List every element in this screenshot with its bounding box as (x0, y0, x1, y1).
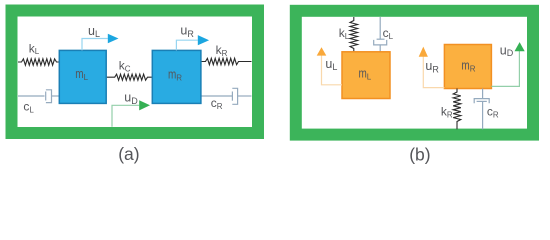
spring kC (106, 74, 152, 80)
mass mR (a) (152, 50, 201, 103)
damper cL (18, 90, 59, 103)
arrow uD (b) head (515, 42, 525, 51)
arrow uR (a) wire (176, 40, 197, 50)
spring kL (b) (350, 17, 358, 52)
arrow uL (a) wire (82, 39, 108, 51)
arrow uD (a) head (139, 100, 150, 110)
svg-text:uD: uD (124, 90, 138, 106)
svg-text:uD: uD (500, 43, 514, 58)
mass mL (a) (59, 50, 106, 103)
panel (a) frame (12, 11, 259, 134)
mass mR (b) (444, 45, 491, 89)
svg-text:uR: uR (425, 59, 439, 74)
spring kL (18, 59, 59, 65)
arrow uR (a) head (198, 35, 209, 45)
svg-text:cL: cL (383, 26, 394, 41)
svg-text:kC: kC (119, 59, 131, 74)
svg-text:cL: cL (23, 100, 34, 115)
spring kR (201, 58, 252, 64)
svg-text:kR: kR (216, 43, 228, 58)
svg-text:kL: kL (339, 26, 350, 41)
panel (b) frame (296, 11, 533, 135)
damper cL (b) (374, 17, 387, 52)
damper cR (b) (474, 89, 489, 130)
svg-text:uR: uR (180, 24, 194, 40)
svg-text:cR: cR (487, 105, 499, 120)
arrow uD (a) wire (112, 105, 139, 127)
svg-text:uL: uL (325, 57, 337, 72)
svg-text:kL: kL (29, 41, 40, 56)
spring kR (b) (453, 89, 461, 130)
svg-text:kR: kR (441, 105, 453, 120)
arrow uL (b) wire (322, 55, 343, 85)
svg-text:(b): (b) (409, 144, 430, 164)
mass mL (b) (342, 52, 390, 99)
arrow uR (b) head (419, 47, 428, 57)
svg-text:uL: uL (88, 24, 100, 39)
svg-text:(a): (a) (118, 144, 139, 164)
arrow uL (a) head (108, 34, 119, 44)
arrow uD (b) wire (491, 51, 519, 86)
damper cR (201, 88, 252, 104)
arrow uL (b) head (317, 47, 327, 55)
svg-text:cR: cR (211, 96, 223, 111)
arrow uR (b) wire (423, 56, 444, 87)
